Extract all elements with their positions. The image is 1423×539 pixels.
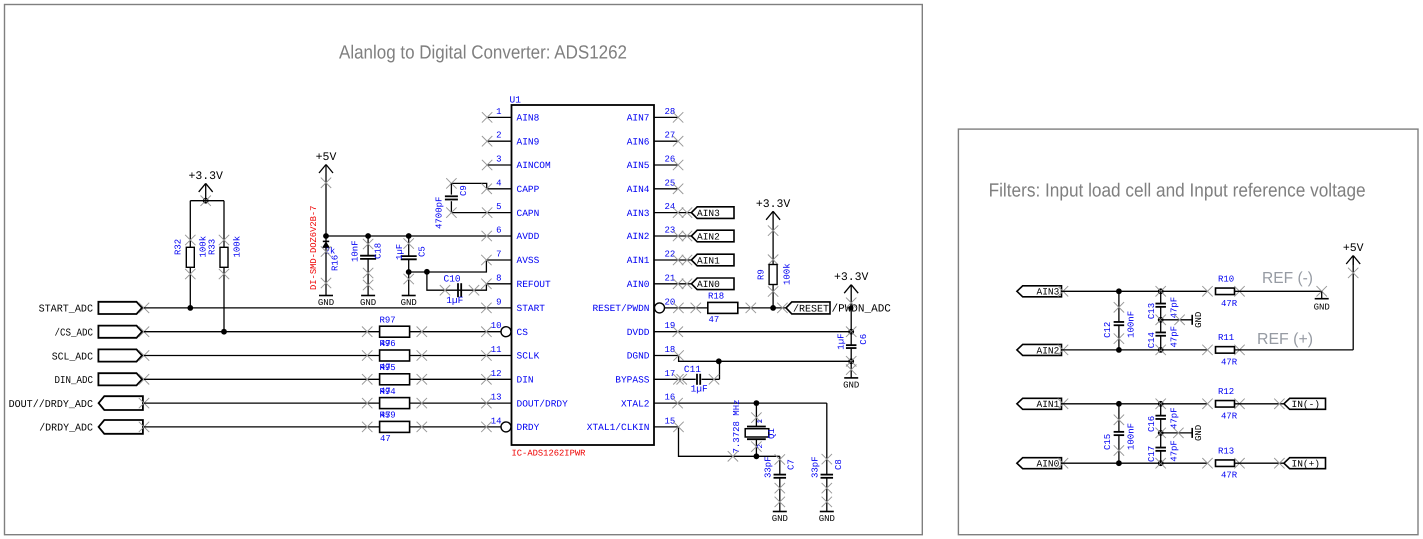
- no-connect R9 bottom: [768, 286, 778, 296]
- svg-text:33pF: 33pF: [764, 456, 774, 478]
- no-connect C18 bottom: [363, 268, 373, 278]
- resistor R11: [1216, 347, 1235, 354]
- no-connect pin 9: [481, 303, 491, 313]
- wire pin 21 AIN0: [654, 283, 691, 285]
- no-connect label /DRDY_ADC: [139, 422, 149, 432]
- U1 left pin numbers 1-14: [491, 107, 502, 427]
- svg-text:28: 28: [665, 107, 676, 117]
- no-connect pin 5 at C9: [446, 207, 456, 217]
- wire C11 to DGND: [702, 361, 720, 379]
- wire AIN3 row: [1062, 290, 1208, 292]
- no-connect R10 right: [1234, 286, 1244, 296]
- svg-text:27: 27: [665, 131, 676, 141]
- svg-text:21: 21: [665, 273, 676, 283]
- wire pin 1 stub: [487, 116, 511, 118]
- junction XTAL2/Q1: [754, 400, 760, 406]
- resistor R96: [380, 350, 410, 361]
- no-connect pin 1: [482, 112, 492, 122]
- svg-text:AVSS: AVSS: [517, 255, 540, 266]
- R9 value 100k: [783, 263, 793, 285]
- wire pin 28 stub: [654, 116, 678, 118]
- global label AIN0 filter: [1017, 458, 1062, 470]
- svg-text:DGND: DGND: [627, 351, 650, 362]
- wire pin 16 XTAL2: [654, 402, 827, 404]
- svg-text:1: 1: [496, 107, 501, 117]
- capacitor C16: [1155, 404, 1166, 433]
- svg-text:100nF: 100nF: [1127, 311, 1137, 338]
- junction AIN2 colB: [1156, 345, 1166, 355]
- wire pin 20 to R18: [665, 307, 708, 309]
- svg-text:6: 6: [496, 226, 501, 236]
- diode value 2k: [325, 247, 336, 257]
- U1 footprint IC-ADS1262IPWR: [512, 449, 587, 459]
- ground at zener: [318, 296, 334, 309]
- no-connect pin 15: [673, 422, 683, 432]
- no-connect gnd REF: [1174, 315, 1184, 325]
- svg-text:GND: GND: [843, 380, 859, 390]
- svg-text:18: 18: [665, 345, 676, 355]
- wire pin 15 XTAL1: [654, 427, 780, 456]
- ground at C18: [360, 296, 376, 309]
- no-connect AIN0 label: [1058, 458, 1068, 468]
- wire AIN1 row: [1062, 403, 1208, 405]
- svg-text:R12: R12: [1218, 387, 1234, 397]
- svg-text:C15: C15: [1103, 434, 1113, 450]
- svg-text:1: 1: [757, 419, 765, 424]
- C7 value 33pF: [764, 456, 774, 478]
- svg-text:33pF: 33pF: [811, 456, 821, 478]
- no-connect pin 3: [482, 160, 492, 170]
- no-connect zener gnd: [321, 278, 331, 288]
- R11 reference: [1218, 333, 1234, 343]
- junction XTAL1/Q1: [754, 453, 760, 459]
- svg-text:GND: GND: [772, 514, 788, 524]
- svg-text:19: 19: [665, 321, 676, 331]
- no-connect pin 21 a: [673, 279, 683, 289]
- svg-text:100k: 100k: [233, 236, 243, 258]
- wire pin 18 DGND: [654, 356, 851, 362]
- no-connect R95 right: [417, 374, 427, 384]
- svg-text:R18: R18: [708, 292, 724, 302]
- R96 value: [380, 363, 391, 373]
- C12 reference: [1103, 322, 1113, 338]
- wire R59 row left: [144, 426, 380, 428]
- no-connect R95 at IC: [481, 374, 491, 384]
- junction AIN3 colB: [1156, 286, 1166, 296]
- global label IN(+): [1284, 458, 1326, 470]
- svg-text:25: 25: [665, 178, 676, 188]
- svg-text:14: 14: [491, 416, 502, 426]
- Q1 reference: [767, 428, 777, 439]
- ground at C8: [819, 512, 835, 525]
- no-connect R95 left: [362, 374, 372, 384]
- no-connect C8 top: [822, 454, 832, 464]
- no-connect pin 23 b: [682, 231, 692, 241]
- capacitor C13: [1155, 291, 1166, 320]
- wire R96 row right: [410, 355, 512, 357]
- no-connect gnd C6: [846, 364, 856, 374]
- global label AIN1: [691, 254, 734, 266]
- svg-text:Alanlog to Digital Converter:: Alanlog to Digital Converter: ADS1262: [339, 43, 627, 64]
- no-connect C7 top: [775, 454, 785, 464]
- junction PWDN anchor: [849, 306, 854, 311]
- junction +3.3V left: [201, 196, 211, 206]
- svg-text:+5V: +5V: [316, 151, 337, 164]
- no-connect pin 20 b: [691, 303, 701, 313]
- C18 reference: [374, 243, 384, 259]
- wire R94 row left: [144, 402, 380, 404]
- wire AIN0 row: [1062, 462, 1208, 464]
- R33 reference: [208, 239, 218, 255]
- svg-text:AIN1: AIN1: [627, 255, 650, 266]
- svg-text:47pF: 47pF: [1170, 326, 1180, 348]
- wire pin 3 stub: [487, 164, 511, 166]
- svg-text:AVDD: AVDD: [517, 231, 540, 242]
- svg-text:C16: C16: [1147, 416, 1157, 432]
- resistor R97: [380, 326, 410, 337]
- no-connect C5 top: [404, 238, 414, 248]
- frame: main schematic sheet border: [5, 5, 923, 535]
- no-connect pin 24 b: [682, 207, 692, 217]
- no-connect pin 27: [673, 136, 683, 146]
- svg-text:47R: 47R: [1221, 299, 1238, 309]
- no-connect C18 top: [363, 239, 373, 249]
- no-connect pin 28: [673, 112, 683, 122]
- no-connect pin 26: [673, 160, 683, 170]
- svg-text:REF (+): REF (+): [1257, 331, 1313, 348]
- net label /PWDN_ADC: [832, 304, 892, 316]
- svg-text:R33: R33: [208, 239, 218, 255]
- power +3.3V left: [188, 170, 223, 201]
- no-connect pin 21 b: [682, 279, 692, 289]
- no-connect R33 top: [219, 235, 229, 245]
- C6 reference: [859, 334, 869, 345]
- C10 value 1uF: [446, 295, 463, 306]
- R59 value: [380, 434, 391, 444]
- svg-text:10: 10: [491, 321, 502, 331]
- no-connect C8 b: [822, 497, 832, 507]
- resistor R94: [380, 398, 410, 409]
- svg-text:47pF: 47pF: [1170, 407, 1180, 429]
- Q1 pin number 1: [757, 419, 765, 424]
- wire pin 2 stub: [487, 140, 511, 142]
- R10 value: [1221, 299, 1238, 309]
- resistor R59: [380, 421, 410, 432]
- svg-text:3: 3: [496, 155, 501, 165]
- resistor R95: [380, 374, 410, 385]
- C14 value 47pF: [1170, 326, 1180, 348]
- power +5V: [316, 151, 337, 236]
- no-connect C10 right: [469, 285, 479, 295]
- svg-text:22: 22: [665, 250, 676, 260]
- svg-text:C17: C17: [1147, 446, 1157, 462]
- no-connect pin 6 AVDD: [482, 231, 492, 241]
- no-connect +5V filter: [1348, 268, 1358, 278]
- svg-text:AIN5: AIN5: [627, 160, 650, 171]
- junction AIN0 colB: [1156, 458, 1166, 468]
- junction C18 top: [365, 233, 371, 239]
- svg-text:R9: R9: [757, 269, 767, 280]
- resistor R10: [1216, 288, 1235, 295]
- svg-text:CAPN: CAPN: [517, 208, 540, 219]
- no-connect R13 right: [1234, 458, 1244, 468]
- svg-text:7: 7: [496, 250, 501, 260]
- capacitor C12: [1114, 291, 1125, 350]
- svg-text:+5V: +5V: [1343, 242, 1364, 255]
- svg-text:2: 2: [496, 131, 501, 141]
- R9 reference: [757, 269, 767, 280]
- R10 reference: [1218, 275, 1234, 285]
- svg-text:C7: C7: [787, 459, 797, 470]
- wire R97 row left: [144, 331, 380, 333]
- no-connect pin 25: [673, 184, 683, 194]
- wire R94 row right: [410, 402, 512, 404]
- hierarchical label SCL_ADC: [52, 349, 142, 363]
- svg-text:GND: GND: [360, 298, 376, 308]
- wire R96 row left: [144, 355, 380, 357]
- no-connect IN- wire: [1274, 399, 1284, 409]
- junction AIN1 colA: [1116, 401, 1122, 407]
- svg-text:47R: 47R: [1221, 411, 1238, 421]
- svg-text:AIN0: AIN0: [1037, 459, 1060, 470]
- junction AIN3 colA: [1116, 288, 1122, 294]
- no-connect AIN3 label: [1058, 286, 1068, 296]
- svg-text:4700pF: 4700pF: [434, 197, 444, 229]
- capacitor C10: [458, 283, 461, 297]
- junction AIN0 colA: [1116, 460, 1122, 466]
- no-connect pin 24 a: [673, 207, 683, 217]
- svg-text:23: 23: [665, 226, 676, 236]
- wire pin 27 stub: [654, 140, 678, 142]
- no-connect R96 at IC: [481, 350, 491, 360]
- svg-text:R13: R13: [1218, 446, 1234, 456]
- no-connect R11 right: [1234, 345, 1244, 355]
- C12 value 100nF: [1127, 311, 1137, 338]
- wire AIN2 row: [1062, 349, 1208, 351]
- svg-text:47pF: 47pF: [1170, 440, 1180, 462]
- svg-text:C9: C9: [459, 185, 469, 196]
- junction mid IN: [1156, 428, 1166, 438]
- svg-text:REFOUT: REFOUT: [517, 279, 552, 290]
- global label /RESET: [786, 302, 830, 316]
- pin 17 number label C11: [684, 364, 701, 375]
- no-connect R59 right: [417, 422, 427, 432]
- no-connect C7 a: [775, 483, 785, 493]
- svg-text:R10: R10: [1218, 275, 1234, 285]
- R12 value: [1221, 411, 1238, 421]
- no-connect label /CS_ADC: [139, 327, 149, 337]
- junction AVSS/C10: [424, 269, 430, 275]
- wire pin 25 stub: [654, 188, 678, 190]
- no-connect R12 right: [1234, 399, 1244, 409]
- no-connect label DOUT//DRDY_ADC: [139, 398, 149, 408]
- junction DGND/C6: [846, 356, 856, 366]
- capacitor C8: [821, 475, 834, 512]
- C11 value 1uF: [691, 383, 708, 394]
- no-connect pin 4: [482, 184, 492, 194]
- global label AIN0: [691, 278, 734, 290]
- pin bubble 14: [501, 422, 511, 432]
- svg-text:R32: R32: [174, 239, 184, 255]
- wire zener to ground: [325, 236, 327, 296]
- U1 right pin numbers 28-15: [665, 107, 676, 427]
- svg-text:AIN2: AIN2: [627, 231, 650, 242]
- no-connect pin 2: [482, 136, 492, 146]
- svg-text:20: 20: [665, 297, 676, 307]
- svg-text:R11: R11: [1218, 333, 1234, 343]
- svg-text:+3.3V: +3.3V: [756, 198, 791, 211]
- power +3.3V DVDD: [834, 271, 869, 332]
- no-connect C10 left: [440, 285, 450, 295]
- svg-text:GND: GND: [1314, 303, 1330, 313]
- svg-text:47R: 47R: [1221, 471, 1238, 481]
- no-connect pin 23 a: [673, 231, 683, 241]
- C13 reference: [1147, 303, 1157, 319]
- svg-text:47: 47: [709, 315, 720, 325]
- junction AIN2 colA: [1116, 347, 1122, 353]
- capacitor C9: [445, 183, 458, 212]
- svg-text:DOUT/DRDY: DOUT/DRDY: [517, 398, 569, 409]
- capacitor C7: [774, 475, 787, 512]
- R13 value: [1221, 471, 1238, 481]
- wire R18 to /RESET: [738, 307, 786, 309]
- capacitor C18: [360, 236, 376, 296]
- svg-text:REF (-): REF (-): [1262, 270, 1313, 287]
- wire pin 22 AIN1: [654, 259, 691, 261]
- svg-text:AIN1: AIN1: [697, 255, 720, 266]
- ground at C5: [401, 296, 417, 309]
- junction AIN1 colB: [1156, 399, 1166, 409]
- C8 value 33pF: [811, 456, 821, 478]
- pin 20 bubble: [655, 303, 665, 313]
- svg-text:GND: GND: [1194, 425, 1204, 441]
- no-connect R33 bottom: [219, 269, 229, 279]
- diode D zener: [323, 241, 329, 247]
- global label AIN2: [691, 230, 734, 242]
- Q1 pin number 2: [756, 444, 765, 449]
- no-connect R59 at IC: [481, 422, 491, 432]
- ground at C6: [843, 378, 859, 391]
- svg-text:AIN9: AIN9: [517, 136, 540, 147]
- no-connect pin 18: [673, 350, 683, 360]
- junction DGND/BYPASS: [716, 358, 722, 364]
- svg-text:AIN1: AIN1: [1037, 399, 1060, 410]
- C18 value 10nF: [351, 240, 361, 262]
- no-connect C18 gnd: [363, 280, 373, 290]
- wire R59 row right: [410, 426, 501, 428]
- diode footprint DI-SMD-DOZ6V2B-7: [309, 206, 319, 290]
- no-connect pin 22 b: [682, 255, 692, 265]
- no-connect pin 22 a: [673, 255, 683, 265]
- hierarchical label DIN_ADC: [55, 373, 143, 387]
- global label AIN3: [691, 207, 734, 219]
- svg-text:C11: C11: [684, 364, 701, 375]
- svg-text:+3.3V: +3.3V: [834, 271, 869, 284]
- C16 value 47pF: [1170, 407, 1180, 429]
- C6 value 1uF: [837, 333, 847, 349]
- junction C5/AVSS node: [406, 269, 412, 275]
- capacitor C14: [1155, 320, 1166, 350]
- no-connect R59 left: [362, 422, 372, 432]
- net name REF (-): [1262, 270, 1313, 287]
- resistor R33: [220, 247, 228, 267]
- svg-text:C6: C6: [859, 334, 869, 345]
- svg-text:7.3728 MHz: 7.3728 MHz: [732, 399, 742, 453]
- no-connect C12 top: [1114, 302, 1124, 312]
- R12 reference: [1218, 387, 1234, 397]
- no-connect C12 bottom: [1114, 333, 1124, 343]
- no-connect R94 left: [362, 398, 372, 408]
- wire pin 23 AIN2: [654, 235, 691, 237]
- svg-text:DOUT//DRDY_ADC: DOUT//DRDY_ADC: [9, 399, 93, 411]
- svg-text:AIN4: AIN4: [627, 184, 650, 195]
- R11 value: [1221, 357, 1238, 367]
- svg-text:C18: C18: [374, 243, 384, 259]
- svg-text:AIN0: AIN0: [697, 279, 720, 290]
- svg-text:C5: C5: [418, 246, 428, 257]
- U1 reference designator: [510, 95, 522, 106]
- svg-text:CS: CS: [517, 327, 529, 338]
- svg-text:47: 47: [380, 434, 391, 444]
- svg-text:17: 17: [665, 369, 676, 379]
- no-connect C7 b: [775, 497, 785, 507]
- no-connect R97 left: [362, 327, 372, 337]
- no-connect DVDD pwr: [846, 298, 856, 308]
- no-connect XTAL1 wire: [728, 451, 738, 461]
- no-connect R9 wire b: [768, 255, 778, 265]
- no-connect zener anode: [321, 246, 331, 256]
- no-connect R94 right: [417, 398, 427, 408]
- global label IN(-): [1284, 398, 1326, 410]
- no-connect +5V wire: [321, 178, 331, 188]
- svg-text:AIN3: AIN3: [697, 208, 720, 219]
- power +5V filter: [1343, 242, 1364, 265]
- junction C5 top: [406, 233, 412, 239]
- global label AIN2 filter: [1017, 344, 1062, 356]
- svg-text:47R: 47R: [1221, 357, 1238, 367]
- wire R33 bottom: [223, 267, 225, 331]
- wire pin 19 DVDD: [654, 331, 851, 333]
- wire pin 4 CAPP to C9: [451, 183, 511, 188]
- wire pin 24 AIN3: [654, 212, 691, 214]
- no-connect Q1 pin1: [751, 412, 761, 422]
- no-connect at /RESET label: [777, 303, 787, 313]
- svg-text:IN(-): IN(-): [1292, 399, 1321, 410]
- svg-text:R96: R96: [380, 339, 396, 349]
- C16 reference: [1147, 416, 1157, 432]
- svg-text:AIN6: AIN6: [627, 136, 650, 147]
- no-connect AIN2 label: [1058, 345, 1068, 355]
- op-amp U1 ADS1262 body: [512, 105, 655, 445]
- global label AIN1 filter: [1017, 398, 1062, 410]
- hierarchical label START_ADC: [39, 302, 143, 316]
- svg-text:AIN7: AIN7: [627, 113, 650, 124]
- svg-text:GND: GND: [318, 298, 334, 308]
- C9 value 4700pF: [434, 197, 444, 229]
- svg-text:START: START: [517, 303, 546, 314]
- no-connect R11 left: [1202, 345, 1212, 355]
- svg-text:BYPASS: BYPASS: [615, 375, 650, 386]
- R32 reference: [174, 239, 184, 255]
- svg-text:11: 11: [491, 345, 502, 355]
- no-connect R96 left: [362, 350, 372, 360]
- no-connect R96 right: [417, 350, 427, 360]
- svg-text:9: 9: [496, 297, 501, 307]
- junction DVDD/C6: [846, 327, 856, 337]
- svg-text:2: 2: [756, 444, 765, 449]
- no-connect C15 top: [1114, 415, 1124, 425]
- svg-text:DIN: DIN: [517, 375, 534, 386]
